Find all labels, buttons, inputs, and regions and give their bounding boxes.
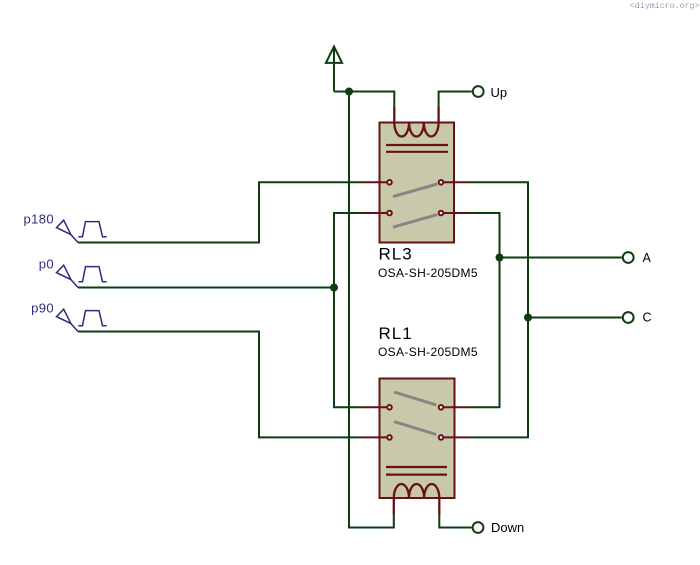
- svg-text:OSA-SH-205DM5: OSA-SH-205DM5: [378, 266, 478, 280]
- wire A net RL3 row2 to RL1 row1: [470, 213, 500, 407]
- power symbol (up arrow): [326, 47, 342, 92]
- terminal C: [623, 312, 634, 323]
- wire RL1 coil to Down terminal: [439, 514, 471, 528]
- svg-text:p0: p0: [39, 257, 54, 272]
- wire C branch to terminal: [528, 317, 622, 319]
- relay RL1 body: [380, 379, 455, 499]
- relay RL3 switch arm 1: [393, 184, 437, 197]
- svg-text:RL1: RL1: [379, 324, 413, 343]
- svg-text:A: A: [643, 251, 652, 265]
- svg-text:RL3: RL3: [379, 245, 413, 264]
- svg-text:C: C: [643, 311, 652, 325]
- relay RL1 pin circles: [387, 405, 443, 440]
- generator p90: [57, 309, 107, 331]
- relay RL3 switch arm 2: [393, 215, 437, 228]
- svg-text:<diymicro.org>: <diymicro.org>: [630, 1, 700, 11]
- svg-text:OSA-SH-205DM5: OSA-SH-205DM5: [378, 345, 478, 359]
- junction at p0 net: [330, 284, 338, 292]
- relay RL1 coil: [394, 484, 440, 514]
- wire p0 net vertical to RL3 row2 and RL1 row1: [334, 213, 363, 407]
- relay RL1 switch arm 1: [394, 392, 436, 405]
- relay RL3 body: [380, 123, 455, 243]
- relay RL1 switch arm 2: [394, 422, 436, 435]
- svg-text:p90: p90: [31, 301, 54, 316]
- wire p180 net to RL3 pin row1: [78, 182, 363, 242]
- svg-text:Down: Down: [491, 520, 524, 535]
- wire power branch down to RL1 coil: [349, 92, 394, 528]
- terminal Down: [473, 522, 484, 533]
- relay RL3 pin circles: [387, 180, 443, 215]
- wire C net RL3 row1 to RL1 row2: [470, 182, 528, 437]
- wire p0 net horizontal: [78, 287, 334, 289]
- relay RL1 pin stubs: [363, 407, 471, 437]
- svg-text:p180: p180: [23, 212, 54, 227]
- wire power rail to RL3 coil: [334, 92, 394, 108]
- wire A branch to terminal: [500, 257, 622, 259]
- junction at power rail: [345, 88, 353, 96]
- terminal Up: [473, 86, 484, 97]
- junction at A net: [496, 254, 504, 262]
- terminal A: [623, 252, 634, 263]
- junction at C net: [524, 314, 532, 322]
- generator p180: [57, 220, 107, 242]
- relay RL3 coil: [394, 107, 438, 137]
- svg-text:Up: Up: [491, 85, 508, 100]
- generator p0: [57, 265, 107, 287]
- relay RL1 core lines: [386, 466, 447, 468]
- wire p90 net to RL1 pin row2: [78, 332, 363, 438]
- relay RL3 pin stubs: [363, 182, 471, 213]
- relay RL3 core lines: [386, 144, 448, 146]
- wire RL3 coil to Up terminal: [439, 92, 472, 108]
